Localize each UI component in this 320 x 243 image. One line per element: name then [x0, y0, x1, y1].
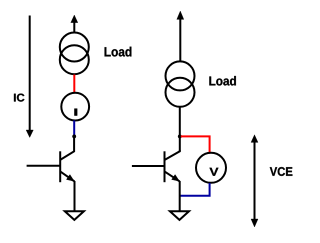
- ground (right): [170, 211, 189, 220]
- voltmeter V: [196, 153, 226, 183]
- current source (Load) left, circle 2: [60, 45, 89, 74]
- transistor Q2 emitter with arrow: [165, 171, 180, 181]
- transistor Q2 (NPN), base bar: [164, 151, 166, 182]
- label Load (left): [105, 47, 132, 57]
- ammeter I: [61, 93, 89, 121]
- transistor Q1 (NPN), base bar: [59, 151, 61, 182]
- current source (Load) left, circle 1: [60, 33, 89, 62]
- wire: red, collector node to voltmeter: [181, 136, 210, 153]
- annotation arrow IC (downward): [26, 16, 33, 138]
- label I: [74, 109, 77, 116]
- wire: right emitter to ground: [179, 181, 181, 211]
- annotation arrow VCE (double-headed): [251, 135, 258, 227]
- wire: left collector lead: [60, 135, 74, 160]
- label IC: [14, 94, 24, 102]
- label Load (right): [209, 76, 236, 86]
- transistor Q1 emitter with arrow: [60, 171, 74, 181]
- label V: [210, 168, 219, 176]
- transistor Q1 base lead: [27, 165, 60, 167]
- node: left collector junction dot: [72, 135, 76, 139]
- transistor Q2 base lead: [132, 165, 164, 167]
- current source (Load) right, circle 1: [166, 61, 195, 90]
- wire: right collector diagonal: [165, 150, 180, 160]
- wire: red, load to ammeter: [73, 75, 75, 94]
- wire: right load to collector: [179, 107, 181, 152]
- node: right collector junction dot: [178, 135, 182, 139]
- wire: blue, ammeter to collector node: [73, 120, 75, 136]
- wire: left supply arrow up: [71, 15, 78, 32]
- wire: blue, voltmeter to emitter: [180, 183, 210, 196]
- current source (Load) right, circle 2: [166, 78, 195, 107]
- ground (left): [65, 211, 84, 220]
- wire: right supply arrow up: [177, 11, 184, 61]
- wire: left emitter to ground: [74, 181, 76, 211]
- label VCE: [270, 167, 293, 176]
